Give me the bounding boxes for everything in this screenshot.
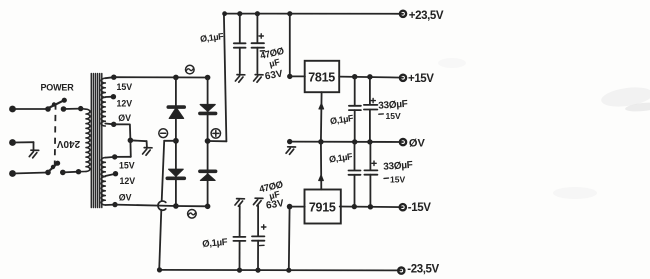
svg-text:12V: 12V	[117, 99, 133, 109]
svg-text:12V: 12V	[120, 176, 136, 186]
svg-text:240V: 240V	[56, 138, 80, 149]
svg-text:15V: 15V	[390, 175, 405, 185]
svg-text:33ØµF: 33ØµF	[383, 160, 413, 173]
svg-text:7815: 7815	[308, 70, 335, 84]
svg-text:ØV: ØV	[118, 113, 131, 123]
svg-text:ØV: ØV	[119, 192, 132, 202]
svg-text:ØV: ØV	[409, 138, 426, 150]
svg-text:33ØµF: 33ØµF	[378, 99, 408, 112]
svg-text:-15V: -15V	[408, 202, 431, 214]
svg-text:7915: 7915	[309, 201, 336, 215]
svg-text:15V: 15V	[117, 82, 133, 92]
svg-text:POWER: POWER	[41, 83, 75, 93]
svg-text:Ø,1µF: Ø,1µF	[202, 237, 228, 250]
svg-text:-23,5V: -23,5V	[407, 264, 439, 276]
svg-text:15V: 15V	[119, 160, 135, 170]
svg-text:+23,5V: +23,5V	[409, 10, 444, 22]
svg-text:15V: 15V	[386, 111, 401, 121]
svg-text:+15V: +15V	[408, 73, 434, 85]
